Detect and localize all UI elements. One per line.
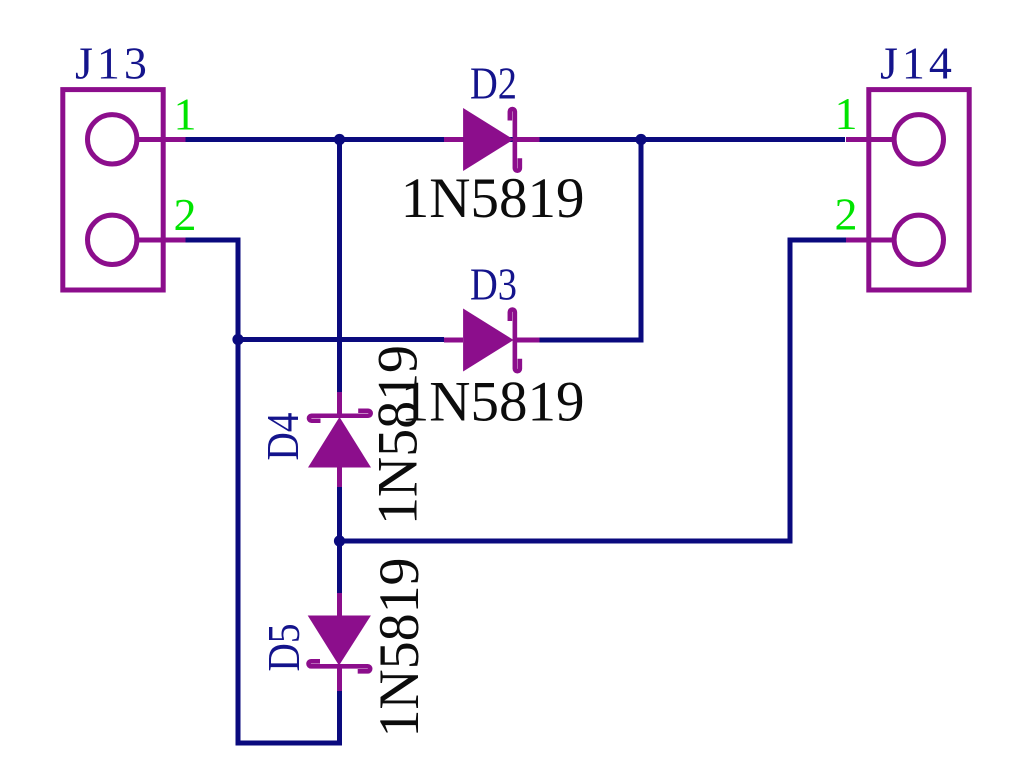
svg-text:J14: J14 — [880, 38, 956, 89]
svg-text:J13: J13 — [75, 38, 151, 89]
svg-text:2: 2 — [174, 189, 197, 240]
svg-text:1: 1 — [835, 88, 858, 139]
svg-text:1N5819: 1N5819 — [401, 167, 585, 230]
svg-text:1N5819: 1N5819 — [368, 558, 431, 738]
svg-text:2: 2 — [835, 189, 858, 240]
svg-text:D3: D3 — [470, 259, 517, 310]
svg-text:D4: D4 — [257, 413, 308, 461]
svg-text:1: 1 — [174, 89, 197, 140]
svg-text:1N5819: 1N5819 — [366, 345, 429, 525]
svg-text:D5: D5 — [258, 624, 309, 672]
svg-text:D2: D2 — [470, 58, 517, 109]
